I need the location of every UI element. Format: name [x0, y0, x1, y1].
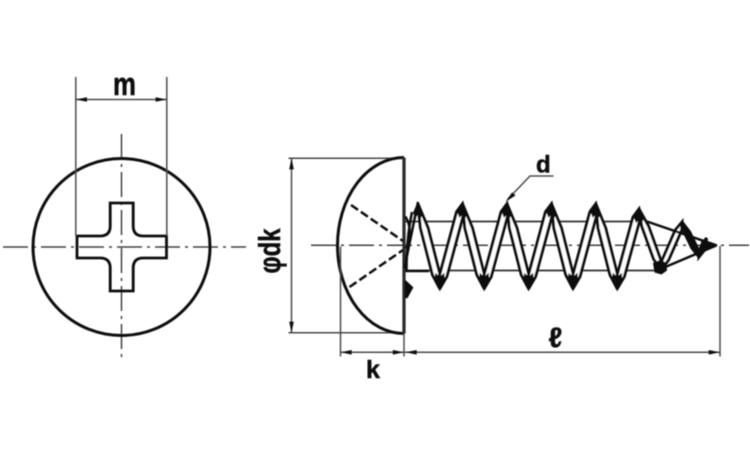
thread flank up5 [572, 204, 597, 289]
thread flank up6 [617, 209, 641, 289]
l extension line right (at tip) [719, 246, 721, 357]
thread flank down4 [552, 204, 574, 289]
thread flank down2 [463, 204, 485, 289]
phillips recess cross [77, 203, 167, 291]
l arrow left [406, 350, 417, 355]
m dimension line [76, 99, 167, 101]
k dimension line [341, 351, 405, 353]
hidden recess line lower (dashed) [350, 250, 404, 287]
point cone top edge [647, 222, 717, 246]
thread flank up4 [528, 204, 553, 289]
thread flank down3 [507, 204, 529, 289]
first thread crest arc at face [406, 217, 410, 249]
hidden recess line upper (dashed) [351, 205, 403, 241]
svg-text:d: d [536, 152, 551, 179]
crest tip wedge bottom x=528.6 [524, 273, 534, 292]
head outline circle [33, 159, 210, 336]
first thread: hidden bottom crest foot at face [406, 281, 413, 298]
crest tip wedge bottom x=484.2 [479, 273, 489, 292]
svg-text:ℓ: ℓ [549, 322, 563, 353]
thread flank up2 [439, 204, 464, 289]
head dome outline [338, 158, 405, 334]
thread root line top [406, 221, 649, 223]
thread flank down1 [418, 204, 440, 289]
l arrow right [709, 350, 720, 355]
thread flank up7 (on cone) [661, 222, 682, 270]
head bearing face line [402, 158, 405, 334]
thread flank up8 (near tip, solid) [699, 238, 707, 257]
crest tip wedge top x=507 [502, 201, 512, 218]
point tip wedge [701, 242, 717, 253]
thread root junction blob at cone base [653, 260, 667, 275]
svg-text:k: k [366, 356, 380, 384]
first thread: root segment at face [406, 270, 430, 273]
phi-dk dimension line [291, 158, 293, 333]
k arrow left [341, 350, 352, 355]
point cone bottom edge [657, 245, 717, 270]
crest tip wedge top x=418 [413, 201, 423, 218]
first thread: inner flank curve at face [407, 212, 413, 270]
m extension line left [75, 77, 77, 236]
horizontal centerline (right view) [311, 244, 749, 246]
svg-text:φdk: φdk [252, 228, 287, 274]
svg-text:m: m [113, 66, 136, 102]
crest tip wedge top x=595.8 [591, 201, 601, 218]
vertical centerline (left view) [121, 134, 123, 357]
crest tip wedge top x=551.5 [547, 201, 557, 218]
m arrow right [156, 97, 167, 102]
phi-dk extension line top [289, 157, 403, 159]
crest tip wedge top x=639 [634, 207, 644, 224]
m extension line right [166, 77, 168, 236]
l dimension line [404, 351, 720, 353]
phi-dk arrow top [289, 158, 294, 169]
thread flank up3 [484, 204, 509, 289]
m arrow left [76, 97, 87, 102]
thread root line bottom [406, 270, 659, 272]
phi-dk arrow bottom [289, 322, 294, 333]
thread flank down6 (on cone) [639, 209, 661, 270]
d leader line [508, 176, 554, 200]
crest tip wedge bottom x=573 [568, 273, 578, 292]
k/l extension line (face, below head) [403, 334, 405, 357]
k arrow right [393, 350, 404, 355]
k extension line left [340, 247, 342, 357]
crest tip wedge bottom x=439.8 [435, 273, 445, 292]
thread flank down5 [596, 204, 618, 289]
d leader arrow [506, 192, 516, 201]
crest tip wedge top x=462.5 [458, 201, 468, 218]
thread flank down7 (on cone) [682, 222, 699, 257]
phi-dk extension line bottom [289, 332, 403, 334]
horizontal centerline (left view) [3, 246, 246, 248]
first thread: outer flank line from face [405, 202, 419, 268]
crest tip wedge bottom x=617.2 [612, 273, 622, 292]
